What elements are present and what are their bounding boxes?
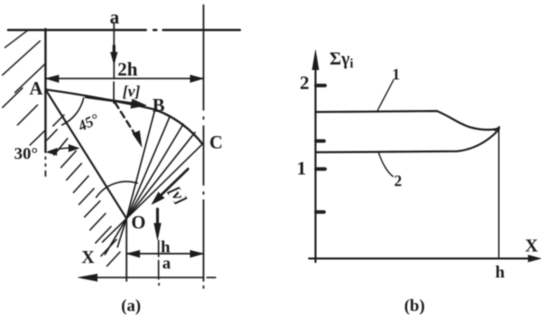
angle arc at O [96,181,137,197]
svg-text:45°: 45° [75,112,102,136]
svg-text:a: a [110,8,120,29]
svg-text:(a): (a) [121,296,141,315]
hatching under top surface (left of wall) [3,31,46,146]
svg-text:X: X [82,247,95,267]
svg-text:30°: 30° [14,144,38,163]
fan radius O-r2 [127,117,170,218]
line A-O (slip line at 30 deg from wall) [46,90,127,219]
30 deg double arrow [49,148,76,152]
velocity arrow [v] along AB [86,97,133,104]
fan radius O-C with overshoot [103,144,203,242]
svg-text:(b): (b) [404,296,425,315]
a axis top with load arrow [113,23,115,104]
dashed velocity arrow in fan [115,103,136,137]
svg-text:Σγi: Σγi [330,49,354,71]
45 deg arc at A [62,98,84,125]
fan radius O-r3 with overshoot [105,124,183,254]
leader line to label 2 [379,153,394,177]
y ticks [316,84,325,88]
ground surface line (top, y=30) [8,29,240,31]
curve A-B [46,90,156,110]
x axis [309,258,532,260]
curve 2 [316,129,500,152]
svg-text:1: 1 [297,159,307,180]
svg-text:h: h [495,263,505,282]
cusp at curve junction [495,127,499,131]
svg-text:1: 1 [392,67,400,84]
leader line to label 1 [378,80,394,111]
wall line (vertical x=45.5) [44,29,46,152]
right vertical dash-dot line (x=203.5) [203,5,205,288]
X axis line at bottom with left arrow [84,277,204,279]
dimension line h (y=253.7) [127,253,204,255]
svg-text:A: A [29,80,43,100]
svg-text:2h: 2h [118,60,139,81]
svg-text:2: 2 [300,73,310,94]
svg-text:O: O [131,214,145,234]
small down arrow below fan near O [156,209,159,229]
svg-text:a: a [162,254,171,273]
svg-text:C: C [209,134,222,154]
dimension line 2h (y=78.5) [46,78,204,80]
svg-text:2: 2 [394,173,402,190]
hatching along A-O band [47,115,120,266]
svg-text:X: X [525,236,538,256]
curve 1 [316,111,500,130]
svg-text:B: B [152,97,164,117]
svg-text:[v]: [v] [123,84,141,101]
a axis bottom tick [158,241,160,280]
fan radius O-r4 [127,132,196,218]
vertical line below O [126,219,128,282]
velocity arrow [v] near O [158,169,189,199]
y axis [315,58,317,262]
arc B-C (fan boundary) [155,110,203,145]
drop line at X=h [498,129,500,259]
fan radius O-B with overshoot [118,110,156,248]
